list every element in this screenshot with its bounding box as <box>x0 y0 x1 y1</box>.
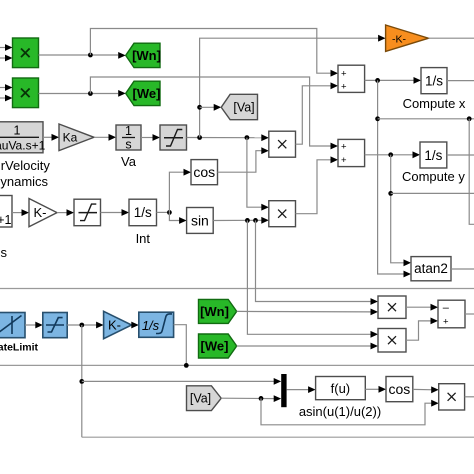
wire W2 to sum C in2 <box>406 318 438 341</box>
arrow into sum X in1 <box>331 70 339 77</box>
svg-text:Dynamics: Dynamics <box>0 245 7 260</box>
integrator 1/s Compute y <box>420 142 447 168</box>
wire integrator blue down to psi net <box>174 325 189 368</box>
from tag [Wn] bottom <box>199 299 237 323</box>
wire xdot down to atan2 in2 <box>375 80 411 277</box>
wire Wn tap up and across <box>90 29 333 74</box>
svg-text:sin: sin <box>191 213 209 229</box>
svg-text:s: s <box>125 138 131 152</box>
trig sin <box>187 208 214 234</box>
wire TF2 to gain K- <box>12 209 29 216</box>
product W1 (Wn*sin) <box>378 296 406 318</box>
product V (Va*cos) <box>439 384 465 410</box>
wire Va net to product X1 <box>187 134 269 141</box>
saturation blue <box>43 313 67 338</box>
wire long horizontal net A (y=288.5) <box>0 288 474 290</box>
svg-text:[Va]: [Va] <box>233 101 254 115</box>
saturation psidot (white) <box>74 199 101 226</box>
svg-text:-K-: -K- <box>392 34 407 46</box>
wire cos2 to product V in1 <box>413 386 439 393</box>
product W2 (We*sin) <box>378 329 406 353</box>
goto tag [Va] <box>221 94 257 119</box>
trig cos <box>191 160 218 185</box>
svg-text:Dynamics: Dynamics <box>0 174 49 189</box>
svg-text:1/s: 1/s <box>134 205 152 220</box>
wire xdot out right <box>378 116 474 121</box>
wire W1 to sum C in1 <box>406 304 438 311</box>
wire from Va to mux in2 <box>221 395 281 402</box>
wire Compute y out <box>447 154 474 156</box>
goto tag [We] <box>126 81 161 105</box>
svg-text:[We]: [We] <box>133 86 161 101</box>
svg-text:atan2: atan2 <box>414 261 448 276</box>
wire sum X to integrator Compute x <box>365 77 421 84</box>
svg-text:1: 1 <box>14 124 21 138</box>
mux <box>281 374 286 407</box>
wire ydot out right <box>391 192 474 194</box>
wire psi to sin <box>169 212 186 224</box>
wire from We to product W2 in2 <box>237 343 378 350</box>
svg-text:.s+1: .s+1 <box>0 213 12 227</box>
wire saturation2 to integrator Int <box>101 209 130 216</box>
wire psi node <box>157 210 172 215</box>
svg-text:Va: Va <box>121 154 137 169</box>
svg-text:+: + <box>443 317 449 328</box>
integrator 1/s Va <box>116 124 141 152</box>
wire P2 to goto We <box>39 90 126 97</box>
wire X1 to sum X in2 <box>296 82 339 144</box>
svg-text:f(u): f(u) <box>331 381 351 396</box>
wire Compute x out <box>447 80 474 82</box>
rate limiter (blue, clipped left) <box>0 313 25 338</box>
from tag [We] bottom <box>199 334 237 358</box>
wire sum C out <box>465 313 474 315</box>
transfer fcn heading (clipped left) <box>0 196 12 228</box>
atan2 <box>411 257 451 281</box>
wire inputs product P1 <box>0 44 13 61</box>
wire TF to Ka <box>43 134 59 141</box>
wire sin to product X2 in2 <box>213 217 269 224</box>
svg-text:K-: K- <box>34 205 47 220</box>
wire sin down to product W1 in1 <box>256 220 379 305</box>
wire f(u) to cos2 <box>365 386 386 393</box>
wire cos to product X1 in2 <box>218 147 269 172</box>
wire from Wn to product W1 in2 <box>237 309 378 316</box>
wire sum Y to integrator Compute y <box>365 151 420 158</box>
svg-text:cos: cos <box>193 164 215 180</box>
arrow into sum Y in1 <box>331 143 339 150</box>
wire X2 to sum Y in2 <box>296 156 339 213</box>
sum X <box>338 65 365 92</box>
label AirVelocity Dynamics <box>0 158 50 189</box>
svg-text:1/s: 1/s <box>142 318 160 333</box>
svg-text:+: + <box>341 155 347 166</box>
wire rate limiter to saturation blue <box>25 322 43 329</box>
sum Y <box>338 139 365 166</box>
svg-text:1: 1 <box>125 124 132 138</box>
wire P1 to goto Wn <box>39 52 126 59</box>
gain Ka <box>59 124 94 151</box>
gain K- blue <box>104 311 132 338</box>
product P2 (We) <box>13 78 39 108</box>
wire We tap up and across <box>90 77 333 146</box>
product X2 (Va*sin) <box>269 201 296 227</box>
svg-text:cos: cos <box>389 381 411 397</box>
wire K- blue to integrator blue <box>131 322 139 329</box>
svg-text:+: + <box>341 81 347 92</box>
sum C <box>438 300 465 328</box>
svg-text:Ka: Ka <box>63 131 78 145</box>
svg-text:K-: K- <box>108 318 121 333</box>
integrator 1/s Int <box>129 199 157 226</box>
wire ydot down to atan2 in1 <box>388 155 411 266</box>
product X1 (Va*cos) <box>269 131 296 157</box>
svg-text:tauVa.s+1: tauVa.s+1 <box>0 139 46 153</box>
wire -K- out <box>429 37 474 39</box>
svg-text:asin(u(1)/u(2)): asin(u(1)/u(2)) <box>299 404 381 419</box>
wire mux to f(u) <box>287 386 316 393</box>
saturation Va (gray) <box>160 125 187 150</box>
wire saturation blue to gain K- blue <box>67 322 103 329</box>
svg-text:Compute x: Compute x <box>403 96 466 111</box>
wire Va tap to goto Va <box>197 104 221 111</box>
svg-text:AirVelocity: AirVelocity <box>0 158 50 173</box>
wire long horizontal net psi (y=365.4) <box>0 364 474 366</box>
svg-text:–: – <box>443 302 450 314</box>
svg-text:[Wn]: [Wn] <box>200 304 229 319</box>
svg-text:+: + <box>341 142 347 153</box>
wire product V out <box>465 396 474 398</box>
wire atan2 out <box>451 268 474 270</box>
svg-text:RateLimit: RateLimit <box>0 342 38 354</box>
wire psidot sat tap down <box>79 325 84 437</box>
trig cos2 <box>386 377 413 402</box>
wire Va feedback to product V in2 <box>261 398 439 424</box>
gain K- <box>29 199 57 227</box>
from tag [Va] bottom <box>187 386 222 411</box>
svg-text:+: + <box>341 69 347 80</box>
svg-text:[Wn]: [Wn] <box>132 48 161 63</box>
wire Ka to integrator Va <box>94 134 116 141</box>
svg-text:1/s: 1/s <box>425 74 443 89</box>
integrator 1/s Compute x <box>421 68 447 94</box>
svg-text:Compute y: Compute y <box>402 169 465 184</box>
wire psi to cos <box>169 169 191 213</box>
wire K- to saturation2 <box>57 209 74 216</box>
svg-text:[Va]: [Va] <box>190 392 211 406</box>
wire to mux in1 <box>82 378 281 385</box>
wire Va down to product X2 <box>247 138 269 211</box>
wire inputs product P2 <box>0 84 13 101</box>
svg-text:[We]: [We] <box>201 339 229 354</box>
wire Va integrator to saturation <box>141 134 160 141</box>
svg-text:1/s: 1/s <box>424 148 442 163</box>
fcn f(u) <box>316 377 366 400</box>
transfer fcn AirVelocity Dynamics <box>0 122 46 153</box>
wire sin down to product W2 in1 <box>247 220 378 337</box>
wire long horizontal net B (y=437.2) <box>82 436 474 438</box>
product P1 (Wn) <box>13 38 39 68</box>
goto tag [Wn] <box>126 43 161 67</box>
svg-text:Int: Int <box>136 231 151 246</box>
gain -K- (orange) <box>386 25 429 51</box>
wire xdot edge drop <box>469 119 474 225</box>
wire Va up to -K- gain <box>200 38 381 137</box>
integrator limited 1/s (blue) <box>139 312 174 337</box>
